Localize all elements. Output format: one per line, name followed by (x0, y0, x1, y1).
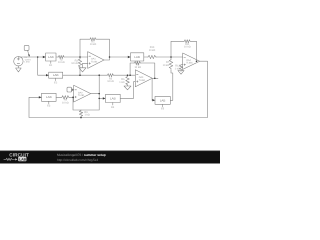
svg-text:LAB: LAB (19, 157, 26, 161)
svg-text:10 kΩ: 10 kΩ (184, 45, 191, 48)
svg-text:LAB: LAB (134, 55, 140, 59)
svg-text:TL081: TL081 (91, 61, 98, 64)
svg-text:LAB: LAB (48, 55, 54, 59)
svg-text:OA2: OA2 (78, 91, 83, 94)
svg-text:10 kΩ: 10 kΩ (149, 49, 156, 52)
svg-text:LAB: LAB (53, 73, 59, 77)
svg-text:10 kΩ: 10 kΩ (134, 66, 141, 69)
svg-text:1 kΩ: 1 kΩ (175, 67, 180, 70)
svg-text:1 kΩ: 1 kΩ (84, 114, 89, 117)
svg-text:1 kHz: 1 kHz (24, 61, 30, 64)
svg-text:LAB: LAB (160, 98, 166, 102)
svg-text:OA3: OA3 (139, 76, 144, 79)
svg-text:TL081: TL081 (186, 62, 193, 65)
svg-text:1 kΩ: 1 kΩ (119, 81, 124, 84)
svg-text:TL081: TL081 (139, 79, 146, 82)
svg-text:OA4: OA4 (186, 59, 191, 62)
svg-text:LAB: LAB (46, 95, 52, 99)
svg-text:10 kΩ: 10 kΩ (107, 80, 114, 83)
svg-text:10 kΩ: 10 kΩ (58, 61, 65, 64)
svg-text:10 kΩ: 10 kΩ (71, 62, 78, 65)
svg-text:OA1: OA1 (91, 58, 96, 61)
svg-text:10 kΩ: 10 kΩ (62, 101, 69, 104)
svg-text:LAB: LAB (110, 96, 116, 100)
svg-text:10 kΩ: 10 kΩ (90, 43, 97, 46)
svg-text:10 kΩ: 10 kΩ (163, 64, 170, 67)
svg-text:http://circuitlab.com/c/hqy5z4: http://circuitlab.com/c/hqy5z4 (57, 158, 98, 162)
svg-text:MusicalAngel976 / summer setup: MusicalAngel976 / summer setup (57, 153, 106, 157)
svg-text:TL081: TL081 (78, 94, 85, 97)
